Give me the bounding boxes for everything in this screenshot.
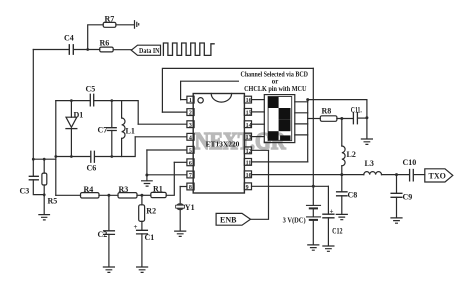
ground (below C12) [323,246,334,251]
svg-text:Data IN: Data IN [139,47,160,55]
capacitor C6 [87,151,97,172]
svg-text:3 V(DC): 3 V(DC) [283,215,306,224]
capacitor C2 [98,195,115,266]
wire left rail (C4 down to C3/R5 junction) [32,50,34,160]
pin 12 [244,147,268,155]
capacitor C3 [20,159,45,195]
svg-text:R2: R2 [146,207,156,216]
wire R6 to Data IN tag [113,49,131,51]
crystal Y1 [176,187,195,231]
svg-text:6: 6 [189,161,192,167]
node R7 branch [86,48,89,51]
svg-text:C6: C6 [87,164,97,173]
wire R4 to R3 [99,194,118,196]
pin 2 [162,109,194,117]
wire C5 to pin3 corner [94,101,138,125]
pin 13 [244,133,264,141]
power rail vertical (pin2 net down to battery) [312,68,314,205]
svg-text:Y1: Y1 [185,203,195,212]
svg-text:L1: L1 [126,127,135,136]
inductor L1 [122,101,135,157]
svg-text:C3: C3 [20,187,30,196]
ground (below C8) [336,214,347,219]
svg-text:3: 3 [189,123,192,129]
wire pin12 to ENB [251,150,269,219]
svg-text:ENB: ENB [220,216,237,225]
capacitor C12 [323,207,343,246]
node C2 [107,194,110,197]
node L2 tap [340,117,343,120]
svg-text:5: 5 [189,148,192,154]
pin 8 [180,183,194,191]
node C3/R5 bottom [43,193,46,196]
svg-text:+: + [134,223,138,231]
node rail-C3 [32,158,35,161]
svg-text:C2: C2 [98,230,108,239]
wire pin5 down to ground node [146,150,148,175]
ground (sideways, right of R7) [135,21,139,28]
node C7 bottom [110,155,113,158]
wire block top (to C5) [56,100,90,102]
svg-text:C12: C12 [332,226,343,235]
ground (below C2) [103,267,114,272]
svg-text:7: 7 [189,173,192,179]
wire to ground below R5 [43,195,45,215]
node C11 right [365,116,368,119]
svg-text:2: 2 [189,111,192,117]
wire down to ground [366,118,368,139]
ground (below C11 node) [361,139,372,144]
node R2/C1 [140,194,143,197]
wire R7 branch [88,25,104,50]
svg-text:R6: R6 [100,39,110,48]
node L2 bottom / main bus [340,173,343,176]
svg-text:12: 12 [246,149,252,155]
svg-text:Channel Selected via BCD: Channel Selected via BCD [241,71,309,78]
wire block left edge [55,101,57,196]
wire C4 to R6 [74,49,100,51]
wire L3 to C10 [382,174,410,176]
ground (below battery) [308,245,319,250]
svg-text:R3: R3 [119,185,129,194]
resistor R2 [139,195,156,221]
Data IN tag [131,45,160,55]
node DIP bus top [306,98,309,101]
wire pin9 corner to C12 [327,186,329,214]
svg-text:C1: C1 [145,233,155,242]
pin 7 [147,171,194,179]
ground (below R5/C3) [39,215,50,220]
svg-text:14: 14 [246,123,252,129]
node block left bottom wire [54,155,57,158]
svg-text:10: 10 [246,173,252,179]
svg-text:or: or [272,78,279,85]
wire pin1 up and over [181,81,239,99]
svg-text:9: 9 [246,185,249,191]
resistor R5 [42,159,57,205]
node D1 top [70,99,73,102]
pin 3 [138,121,194,129]
wire DIP bus vertical [307,100,309,162]
ground (below C9) [391,218,402,223]
svg-text:16: 16 [246,98,252,104]
pin 1 [181,96,194,104]
pin 9 [244,183,328,191]
wire pin2 to power loop top [162,68,313,112]
resistor R4 [81,185,100,198]
pin 5 [147,146,194,154]
resistor R3 [118,185,137,198]
capacitor C10 [403,158,417,181]
svg-text:R7: R7 [105,15,115,24]
svg-text:ET13X220: ET13X220 [206,139,240,148]
channel select note text [241,71,309,93]
wire R3 to R1 [137,194,151,196]
ground (below C1) [137,267,148,272]
svg-text:R4: R4 [84,185,94,194]
svg-text:L3: L3 [365,159,374,168]
pin 6 [174,159,194,167]
inductor L3 [364,159,382,175]
svg-text:CHCLK pin with MCU: CHCLK pin with MCU [244,86,306,93]
svg-text:L2: L2 [347,150,356,159]
IC U1 body ET13X220 [193,94,244,194]
svg-text:C4: C4 [64,34,74,43]
svg-text:11: 11 [246,161,252,167]
svg-text:8: 8 [189,185,192,191]
svg-text:R1: R1 [153,185,163,194]
capacitor C11 [351,106,362,124]
wire C4 input line [33,49,69,51]
svg-text:TXO: TXO [429,171,446,180]
capacitor C1 [134,221,155,266]
resistor R8 [320,106,337,121]
wire R8 to C11 [337,118,353,120]
svg-text:4: 4 [189,135,192,141]
svg-text:C7: C7 [98,126,108,135]
capacitor C7 [98,101,117,157]
wire C10 to TXO [414,174,425,176]
node C7 top [110,99,113,102]
svg-text:13: 13 [246,135,252,141]
ground (below Y1) [175,231,186,236]
node D1 bottom [70,155,73,158]
svg-text:C5: C5 [86,84,96,93]
wire bus top to C11 corner [308,100,367,118]
ground (pins 5/7 net) [142,174,153,187]
bottom bus [56,194,81,196]
TXO tag [425,169,453,182]
pin 15 [244,109,264,117]
svg-text:R8: R8 [322,106,332,115]
ENB tag [216,213,250,225]
svg-text:1: 1 [189,98,192,104]
svg-text:D1: D1 [74,111,84,120]
capacitor C5 [86,84,96,106]
svg-text:C9: C9 [403,192,413,201]
capacitor C8 [337,175,358,215]
wire R7 to ground [116,24,134,26]
wire C11 to junction [358,117,367,119]
square wave glyph [163,43,214,55]
DIP switch S1 [264,95,295,143]
inductor L2 [342,119,356,175]
wire block bottom (to C6) [56,156,91,158]
svg-text:15: 15 [246,111,252,117]
svg-text:C11.: C11. [351,106,362,115]
capacitor C4 [64,34,74,55]
node C9 tap [395,173,398,176]
battery 3 V(DC) [283,205,321,244]
svg-text:R5: R5 [48,197,58,206]
wire C6 to pin4 corner [95,137,136,157]
pin 14 [244,121,264,129]
pin 16 [244,96,264,104]
diode D1 [66,101,83,157]
DIP right contacts [295,102,308,135]
wire R8 feed [308,118,321,120]
pin 11 [244,159,307,167]
svg-text:C10: C10 [403,158,417,167]
capacitor C9 [391,175,412,218]
pin 4 [135,133,194,141]
node battery/pin9/C12 [312,185,315,188]
svg-text:C8: C8 [348,190,358,199]
svg-text:+: + [330,207,334,215]
wire R1 right to pin6 vertical [166,162,174,195]
pin 10 [244,171,363,179]
wire junction row C3/R5/block [33,158,56,160]
resistor R6 [100,39,114,52]
node R5 top [43,158,46,161]
resistor R1 [151,185,166,198]
resistor R7 [103,15,116,28]
